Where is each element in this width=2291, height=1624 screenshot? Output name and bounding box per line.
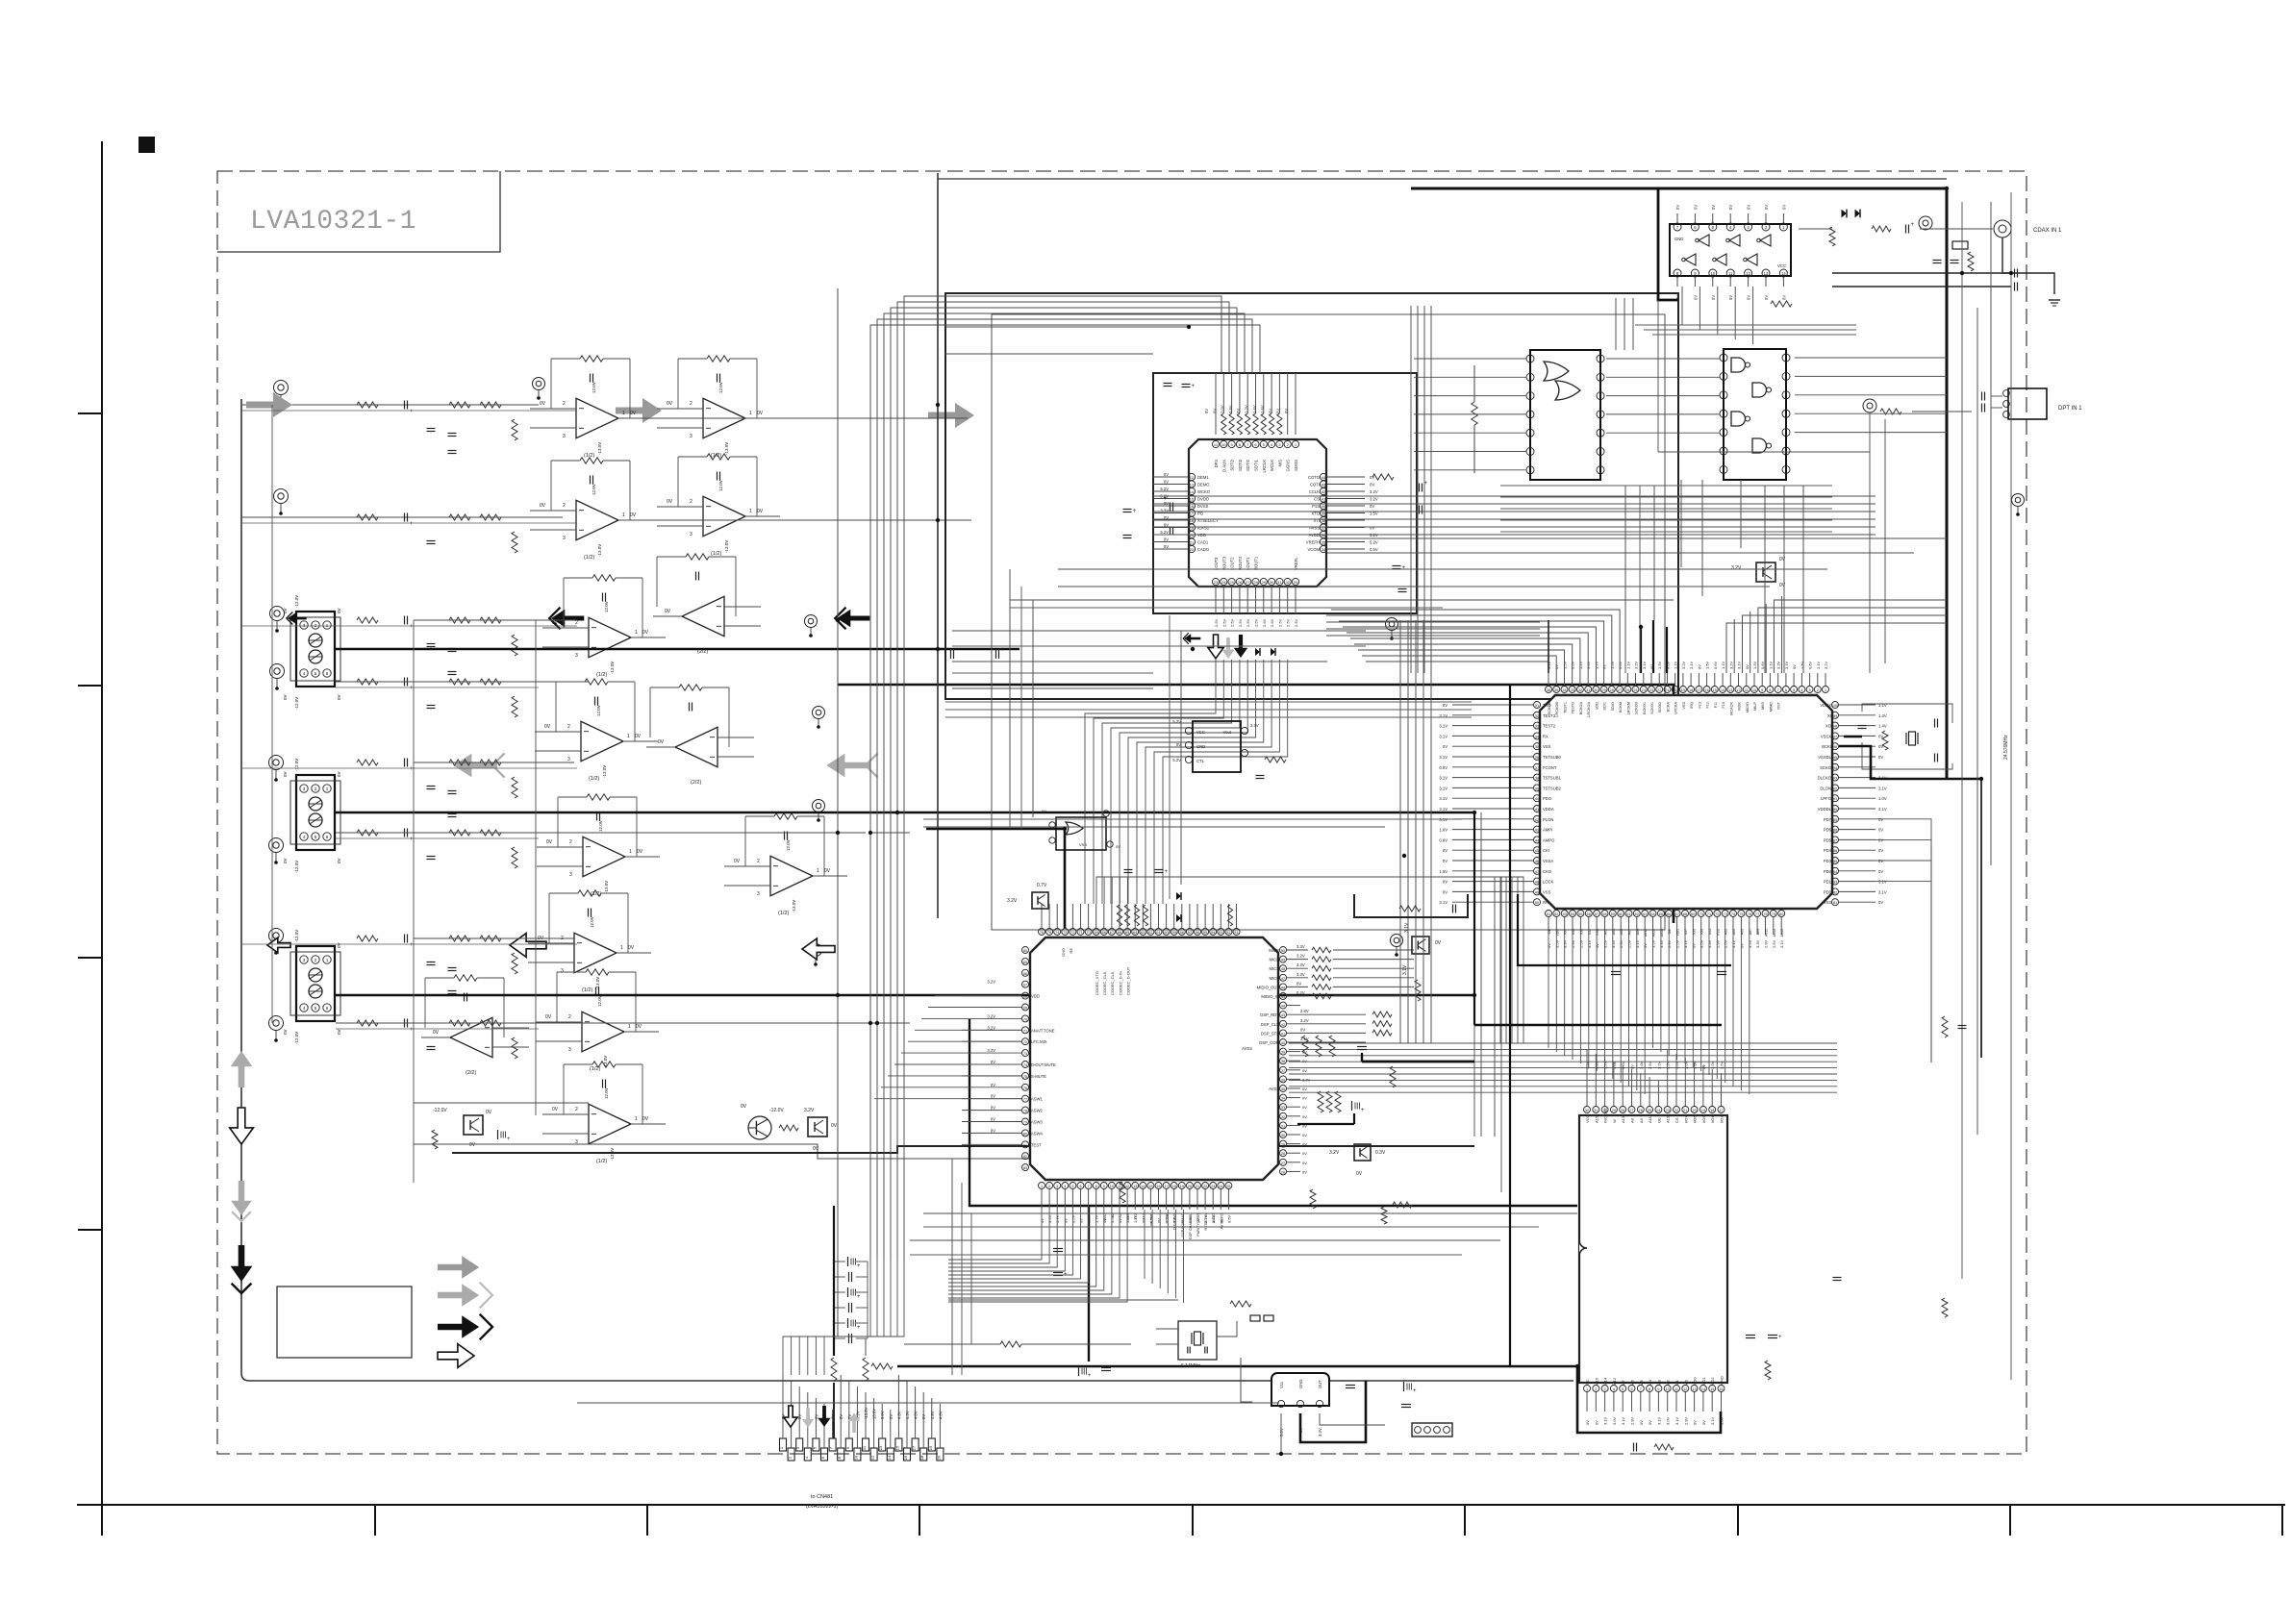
op-amp U14 [542,1062,666,1164]
wire mesh vert b [1170,615,1181,899]
svg-text:A03: A03 [1732,929,1736,935]
svg-text:0V: 0V [1630,1064,1635,1069]
svg-text:0V: 0V [757,411,764,416]
svg-text:MIIS: MIIS [1761,702,1765,710]
svg-text:0V: 0V [1302,1151,1307,1156]
svg-text:38: 38 [1535,777,1539,781]
svg-text:VSSA: VSSA [1543,859,1553,863]
svg-text:NC: NC [1585,1379,1590,1385]
svg-text:0V: 0V [991,1060,995,1064]
svg-text:66: 66 [1118,931,1121,935]
svg-text:VREFL: VREFL [1294,557,1298,570]
resistor R63d [1381,1207,1387,1224]
svg-text:IO5: IO5 [1692,929,1696,935]
svg-text:0V: 0V [991,1094,995,1099]
crystal X802 6.14MHz [1178,1321,1217,1369]
svg-text:A13: A13 [1621,1115,1625,1123]
svg-text:7: 7 [1088,1185,1090,1188]
svg-text:3.2V: 3.2V [1165,1214,1170,1223]
svg-text:2.9V: 2.9V [1764,939,1769,948]
input RC network row 6 [357,829,517,869]
svg-text:25: 25 [1648,1109,1651,1112]
svg-text:3.1V: 3.1V [1594,661,1599,669]
arrow black double row3 mid [549,608,584,630]
svg-text:6: 6 [1785,688,1787,692]
node TPm7 [1391,935,1403,957]
svg-text:VCC: VCC [1777,263,1786,268]
svg-text:LOUT2: LOUT2 [1230,557,1235,570]
svg-text:0V: 0V [433,1030,440,1036]
svg-text:+: + [857,1263,861,1269]
svg-text:VSS: VSS [1079,842,1087,847]
wire vert bundle x1540 [1474,812,1501,1192]
svg-text:0V: 0V [337,694,341,700]
svg-text:PD2: PD2 [1824,869,1832,874]
svg-text:33: 33 [1571,688,1574,692]
svg-text:0V: 0V [628,945,635,951]
wire xtal802 net [1156,1321,1237,1344]
capacitor C117 [1398,589,1407,592]
svg-text:+: + [410,624,414,630]
arrow gray double down bus [231,1181,252,1221]
svg-text:18: 18 [1689,688,1693,692]
svg-text:73: 73 [1724,912,1727,916]
legend box [277,1287,412,1358]
svg-text:39: 39 [1281,1051,1285,1055]
svg-text:0V: 0V [1764,295,1769,300]
svg-text:1.5V: 1.5V [1657,661,1662,669]
capacitor C210 [1982,392,1985,412]
wire thick drop x1132 [1088,1206,1090,1362]
resistor R62 [1390,1066,1396,1087]
wire bus mid rect [992,314,1665,930]
svg-text:22: 22 [1674,1109,1678,1112]
svg-text:0V: 0V [1302,1142,1307,1147]
svg-text:0V: 0V [1300,1027,1305,1032]
arrow black double row3 left [287,612,307,625]
svg-text:18: 18 [919,1455,924,1460]
svg-text:12.0V: 12.0V [598,820,603,832]
title text LVA10321-1 [250,207,416,237]
svg-text:OUT: OUT [1318,1380,1322,1388]
svg-text:1.5V: 1.5V [1705,661,1710,669]
svg-text:0V: 0V [1164,472,1169,477]
svg-text:0V: 0V [1639,1420,1644,1425]
svg-text:6: 6 [1630,1387,1632,1391]
svg-text:COTI: COTI [1310,483,1320,487]
resistor R71 [1765,1361,1771,1380]
svg-text:3: 3 [690,434,692,439]
wire top feed row1 [241,404,539,406]
wire vert x990 low [952,1159,971,1375]
svg-text:3.3V: 3.3V [1297,944,1305,949]
svg-text:8: 8 [1095,1185,1097,1188]
svg-text:2.5V: 2.5V [1675,939,1680,948]
svg-text:42: 42 [1322,489,1326,494]
svg-text:6.14MHz: 6.14MHz [1181,1363,1201,1369]
wire mesh vert a [1010,569,1033,829]
svg-text:(LVA10322-1): (LVA10322-1) [806,1504,839,1510]
IC4 quad NAND gate [1720,349,1790,480]
svg-text:3.3V: 3.3V [1297,962,1305,967]
svg-text:95: 95 [1833,756,1837,760]
svg-text:RR: RR [1543,900,1548,905]
svg-text:67: 67 [1023,984,1027,987]
svg-text:0V: 0V [1443,848,1448,853]
svg-text:66: 66 [1023,972,1027,976]
svg-text:S-MUTE: S-MUTE [1031,1074,1046,1079]
svg-text:0V: 0V [1370,504,1374,509]
svg-text:3: 3 [1604,1387,1606,1391]
svg-text:77: 77 [1023,1098,1027,1102]
svg-text:16: 16 [1704,688,1708,692]
svg-text:3.1V: 3.1V [1635,939,1640,948]
svg-text:3: 3 [690,532,692,537]
svg-text:2: 2 [757,859,760,864]
wire main left bus [241,399,1573,1381]
svg-text:74: 74 [1023,1063,1027,1067]
wire mesh horiz b [952,673,1153,688]
svg-text:2: 2 [563,503,566,509]
IC9 gate buffer [1042,809,1120,850]
svg-text:3.0V: 3.0V [1693,1061,1698,1069]
svg-text:0V: 0V [1585,1420,1590,1425]
svg-text:CODEC_XTO: CODEC_XTO [1095,971,1099,995]
svg-text:3.0V: 3.0V [1710,1061,1715,1069]
svg-text:CDAX IN 1: CDAX IN 1 [2033,228,2062,234]
svg-text:0V: 0V [1302,1059,1307,1063]
svg-text:PD7: PD7 [1824,817,1832,822]
op-amp U3 [530,458,653,561]
svg-text:SDTI1: SDTI1 [1254,459,1259,471]
svg-text:AMPO: AMPO [1543,837,1555,842]
wire top bus thin [938,178,1947,180]
svg-text:TEST3: TEST3 [1543,713,1556,718]
svg-text:35: 35 [1554,688,1558,692]
svg-text:84: 84 [1833,870,1837,874]
resistor R61 rows [1372,1012,1392,1036]
svg-text:0V: 0V [1747,205,1751,210]
svg-text:3.2V: 3.2V [1594,1061,1599,1069]
left ruler tick marks [78,413,102,1230]
svg-text:0V: 0V [1302,1087,1307,1091]
svg-text:0V: 0V [1164,537,1169,542]
wire row9 out [414,1102,589,1104]
svg-text:CODEC_D-OUT: CODEC_D-OUT [1125,966,1130,995]
svg-text:3.2V: 3.2V [1585,1061,1590,1069]
svg-text:75: 75 [1739,912,1743,916]
svg-text:69: 69 [1691,912,1695,916]
svg-text:IRQ: IRQ [1690,702,1694,709]
svg-text:2.5V: 2.5V [1578,939,1583,948]
capacitor C112 [1123,509,1137,514]
svg-text:3.1V: 3.1V [1737,661,1742,669]
svg-text:16: 16 [1156,1185,1160,1188]
svg-text:1.1V: 1.1V [1721,661,1725,669]
svg-text:35: 35 [1322,540,1326,545]
svg-text:3.2V: 3.2V [1370,497,1378,502]
wire top thick right bus [1411,188,1947,779]
label A.GND [831,1422,836,1435]
IC1 D/A converter [1153,373,1378,627]
svg-text:VSSDL: VSSDL [1818,755,1831,760]
arrow outline dn CN481 [784,1406,797,1427]
svg-text:12.0V: 12.0V [718,480,723,491]
wire y470 link [1658,451,1870,453]
svg-text:57: 57 [1595,912,1599,916]
svg-text:45: 45 [1535,849,1539,853]
svg-text:13.0V: 13.0V [872,1409,877,1419]
svg-text:+: + [410,837,414,842]
svg-text:BCKOA: BCKOA [1579,702,1583,715]
svg-text:VDD: VDD [1595,702,1599,710]
svg-text:3.2V: 3.2V [1731,565,1742,571]
wire lower row9b thick [452,1146,1474,1153]
svg-text:0V: 0V [283,608,288,613]
wire bus gates left [1606,359,1720,433]
svg-text:0.5V: 0.5V [1070,1214,1075,1223]
resistor R130 [1472,365,1477,473]
svg-text:0V: 0V [1779,557,1786,562]
svg-text:GGNS: GGNS [1286,460,1291,472]
svg-text:2: 2 [1048,1185,1050,1188]
svg-text:3.1V: 3.1V [1439,734,1448,738]
wire bus gates to right [1795,358,1947,433]
svg-text:MICS: MICS [1270,966,1280,971]
svg-text:50: 50 [1535,901,1539,905]
wire thick bus ch3 [336,994,1474,996]
transistor Q12 circle [741,1104,784,1139]
svg-text:MICP: MICP [1270,958,1280,962]
svg-text:MIDIO: MIDIO [1746,702,1750,712]
svg-text:80: 80 [1023,949,1027,953]
svg-text:27: 27 [1618,688,1622,692]
connector J3 analog in C [283,930,341,1044]
svg-text:3.1V: 3.1V [1603,1416,1608,1425]
svg-text:(2/2): (2/2) [466,1070,476,1076]
svg-text:IO1: IO1 [1708,929,1712,935]
svg-text:PD1: PD1 [1824,880,1832,885]
svg-text:0V: 0V [1701,1420,1706,1425]
wire thick bus ch2 [336,812,1474,813]
svg-text:DFS: DFS [1214,460,1219,468]
svg-text:3.2V: 3.2V [1681,661,1686,669]
transistor Q11 boxed [433,1108,492,1148]
svg-text:1: 1 [817,868,819,874]
svg-text:SDTI2: SDTI2 [1246,459,1250,471]
svg-text:VSS: VSS [1824,900,1832,905]
svg-text:2.9V: 2.9V [1571,939,1575,948]
svg-text:3.3V: 3.3V [1318,1428,1322,1437]
svg-text:2.5V: 2.5V [1720,1061,1725,1069]
title box frame [217,171,500,252]
svg-text:CKO: CKO [1543,869,1552,874]
svg-text:3: 3 [575,653,578,659]
svg-text:+: + [1778,1335,1782,1340]
svg-text:0.2V: 0.2V [1297,990,1305,995]
svg-text:16: 16 [1719,1387,1723,1391]
svg-text:0V: 0V [1711,205,1716,210]
svg-text:31: 31 [1281,1124,1285,1128]
svg-text:3.2V: 3.2V [1586,661,1591,669]
svg-text:3: 3 [1809,688,1811,692]
svg-text:A09: A09 [1636,929,1640,935]
svg-text:0.5V: 0.5V [1110,1214,1115,1223]
svg-text:14: 14 [1721,688,1725,692]
svg-text:A6: A6 [1630,1379,1635,1385]
wire thick loop y945 [1354,894,1468,917]
connector J2 analog in B [283,759,341,873]
svg-text:3: 3 [569,872,572,878]
resistor R63b [1310,1189,1316,1209]
resistor R_CS [1372,474,1394,480]
wire horiz bundle y520 [1153,496,1876,535]
svg-text:73: 73 [1023,1052,1027,1056]
input RC network row 3 [357,616,517,657]
wire lower row9 [414,1144,1193,1159]
svg-text:TEST2: TEST2 [1543,724,1556,729]
svg-text:2.5V: 2.5V [1286,618,1291,627]
svg-text:F10: F10 [1722,702,1725,709]
svg-text:21: 21 [1683,1109,1687,1112]
svg-text:Vcc: Vcc [1279,1382,1284,1388]
svg-text:17: 17 [1164,1185,1168,1188]
svg-text:IO3: IO3 [1579,929,1583,935]
resistor R202 [1829,227,1835,246]
svg-text:0V: 0V [831,1123,838,1129]
svg-text:12.0V: 12.0V [596,705,601,716]
svg-text:48: 48 [1281,967,1285,971]
svg-text:2: 2 [690,401,692,407]
svg-text:0.6V: 0.6V [1571,661,1575,669]
svg-text:1: 1 [622,512,625,518]
capacitor C64 [1453,905,1456,913]
svg-text:0V: 0V [1693,205,1698,210]
svg-text:WCLK: WCLK [1270,460,1274,471]
svg-text:26: 26 [1625,688,1629,692]
svg-text:24: 24 [1656,1109,1660,1112]
svg-text:3.3V: 3.3V [1611,939,1616,948]
svg-text:2.9V: 2.9V [1619,939,1624,948]
op-amp U8 [646,685,754,786]
svg-text:DSP_RDY: DSP_RDY [1260,1012,1279,1017]
wire xtal net [1839,704,1981,779]
arrow black double down bus [231,1245,253,1293]
svg-text:0V: 0V [1042,809,1046,813]
svg-text:12: 12 [1683,1387,1687,1391]
svg-text:0.5V: 0.5V [1188,1214,1193,1223]
svg-text:AVSS: AVSS [1269,1087,1279,1091]
svg-text:42: 42 [1535,818,1539,822]
svg-text:A1: A1 [1674,1379,1679,1385]
svg-text:5.2V: 5.2V [1172,719,1181,724]
svg-text:2.5V: 2.5V [1648,1061,1652,1069]
svg-text:10: 10 [1221,442,1226,447]
svg-text:+: + [1402,565,1406,571]
svg-text:LRCLK: LRCLK [1262,460,1267,473]
legend gray arrow [438,1256,479,1278]
svg-text:-12.0V: -12.0V [294,759,299,771]
svg-text:1: 1 [635,630,638,636]
svg-text:GND: GND [1061,948,1066,957]
svg-text:9: 9 [1103,1185,1105,1188]
diode D12 [1271,648,1275,656]
svg-text:to CN481: to CN481 [811,1494,833,1500]
capacitor C113 [1123,536,1132,538]
wire top area horizontals [945,327,1189,354]
wire right thick low [1980,779,1982,1058]
svg-text:-13.0V: -13.0V [597,544,602,557]
svg-text:2.5V: 2.5V [1238,618,1243,627]
svg-text:1: 1 [1586,1387,1588,1391]
wire horiz y560-600 [1058,538,1947,587]
legend black double arrow [438,1314,492,1340]
svg-text:91: 91 [1833,797,1837,801]
svg-text:5.2V: 5.2V [1172,758,1181,762]
svg-text:VSS: VSS [1543,889,1551,894]
svg-text:BCKM: BCKM [1619,702,1623,712]
svg-text:3.0V: 3.0V [1612,1061,1617,1069]
svg-text:6: 6 [1079,1185,1081,1188]
ground GND201 [2049,300,2060,306]
svg-text:MIS: MIS [1277,460,1282,467]
svg-text:3.1V: 3.1V [1683,939,1688,948]
legend gray double arrow [438,1283,492,1309]
svg-text:0V: 0V [544,724,551,730]
svg-text:12: 12 [1190,475,1195,480]
svg-text:67: 67 [1674,912,1678,916]
wire row1 out [642,417,968,419]
svg-text:74: 74 [1055,931,1059,935]
capacitor C111 [1171,527,1173,536]
svg-text:0V: 0V [1594,1420,1599,1425]
svg-text:66: 66 [1667,912,1671,916]
svg-text:4.8V: 4.8V [896,1411,901,1419]
svg-text:INC/DEC: INC/DEC [1603,1107,1608,1123]
svg-text:47: 47 [1535,870,1539,874]
arrow black double row3 right [835,608,869,630]
svg-text:ICKS1: ICKS1 [1197,526,1210,531]
capacitor C63 [1256,776,1265,779]
svg-text:PD6: PD6 [1824,828,1832,833]
svg-text:0V: 0V [1196,1218,1200,1223]
svg-text:60: 60 [1164,931,1168,935]
svg-text:ROUT1: ROUT1 [1254,556,1259,570]
node TP202 [1863,399,1876,412]
svg-text:3.2V: 3.2V [987,1048,995,1053]
capacitor C61b [1297,1101,1365,1124]
svg-text:PLON: PLON [1543,817,1553,822]
svg-text:20: 20 [936,1455,941,1460]
svg-text:I/O1: I/O1 [1701,1377,1706,1385]
svg-text:F12: F12 [1706,702,1710,709]
wire mesh horiz a [952,631,1366,662]
svg-text:75: 75 [1047,931,1051,935]
svg-text:DLON: DLON [1820,786,1831,790]
svg-text:DLCKO: DLCKO [1818,776,1832,781]
svg-text:5: 5 [1622,1387,1624,1391]
svg-text:70: 70 [1086,931,1090,935]
svg-text:0V: 0V [642,630,649,636]
wire DSP bottom bundle [962,1210,1127,1302]
node TPm4 [813,800,825,822]
svg-text:0V: 0V [734,859,741,864]
svg-text:3.1V: 3.1V [1439,796,1448,801]
wire DSP left bundle [874,996,1021,1099]
wire row7 out [414,937,574,939]
svg-text:SDOS: SDOS [1294,460,1298,471]
svg-text:3: 3 [567,757,570,762]
